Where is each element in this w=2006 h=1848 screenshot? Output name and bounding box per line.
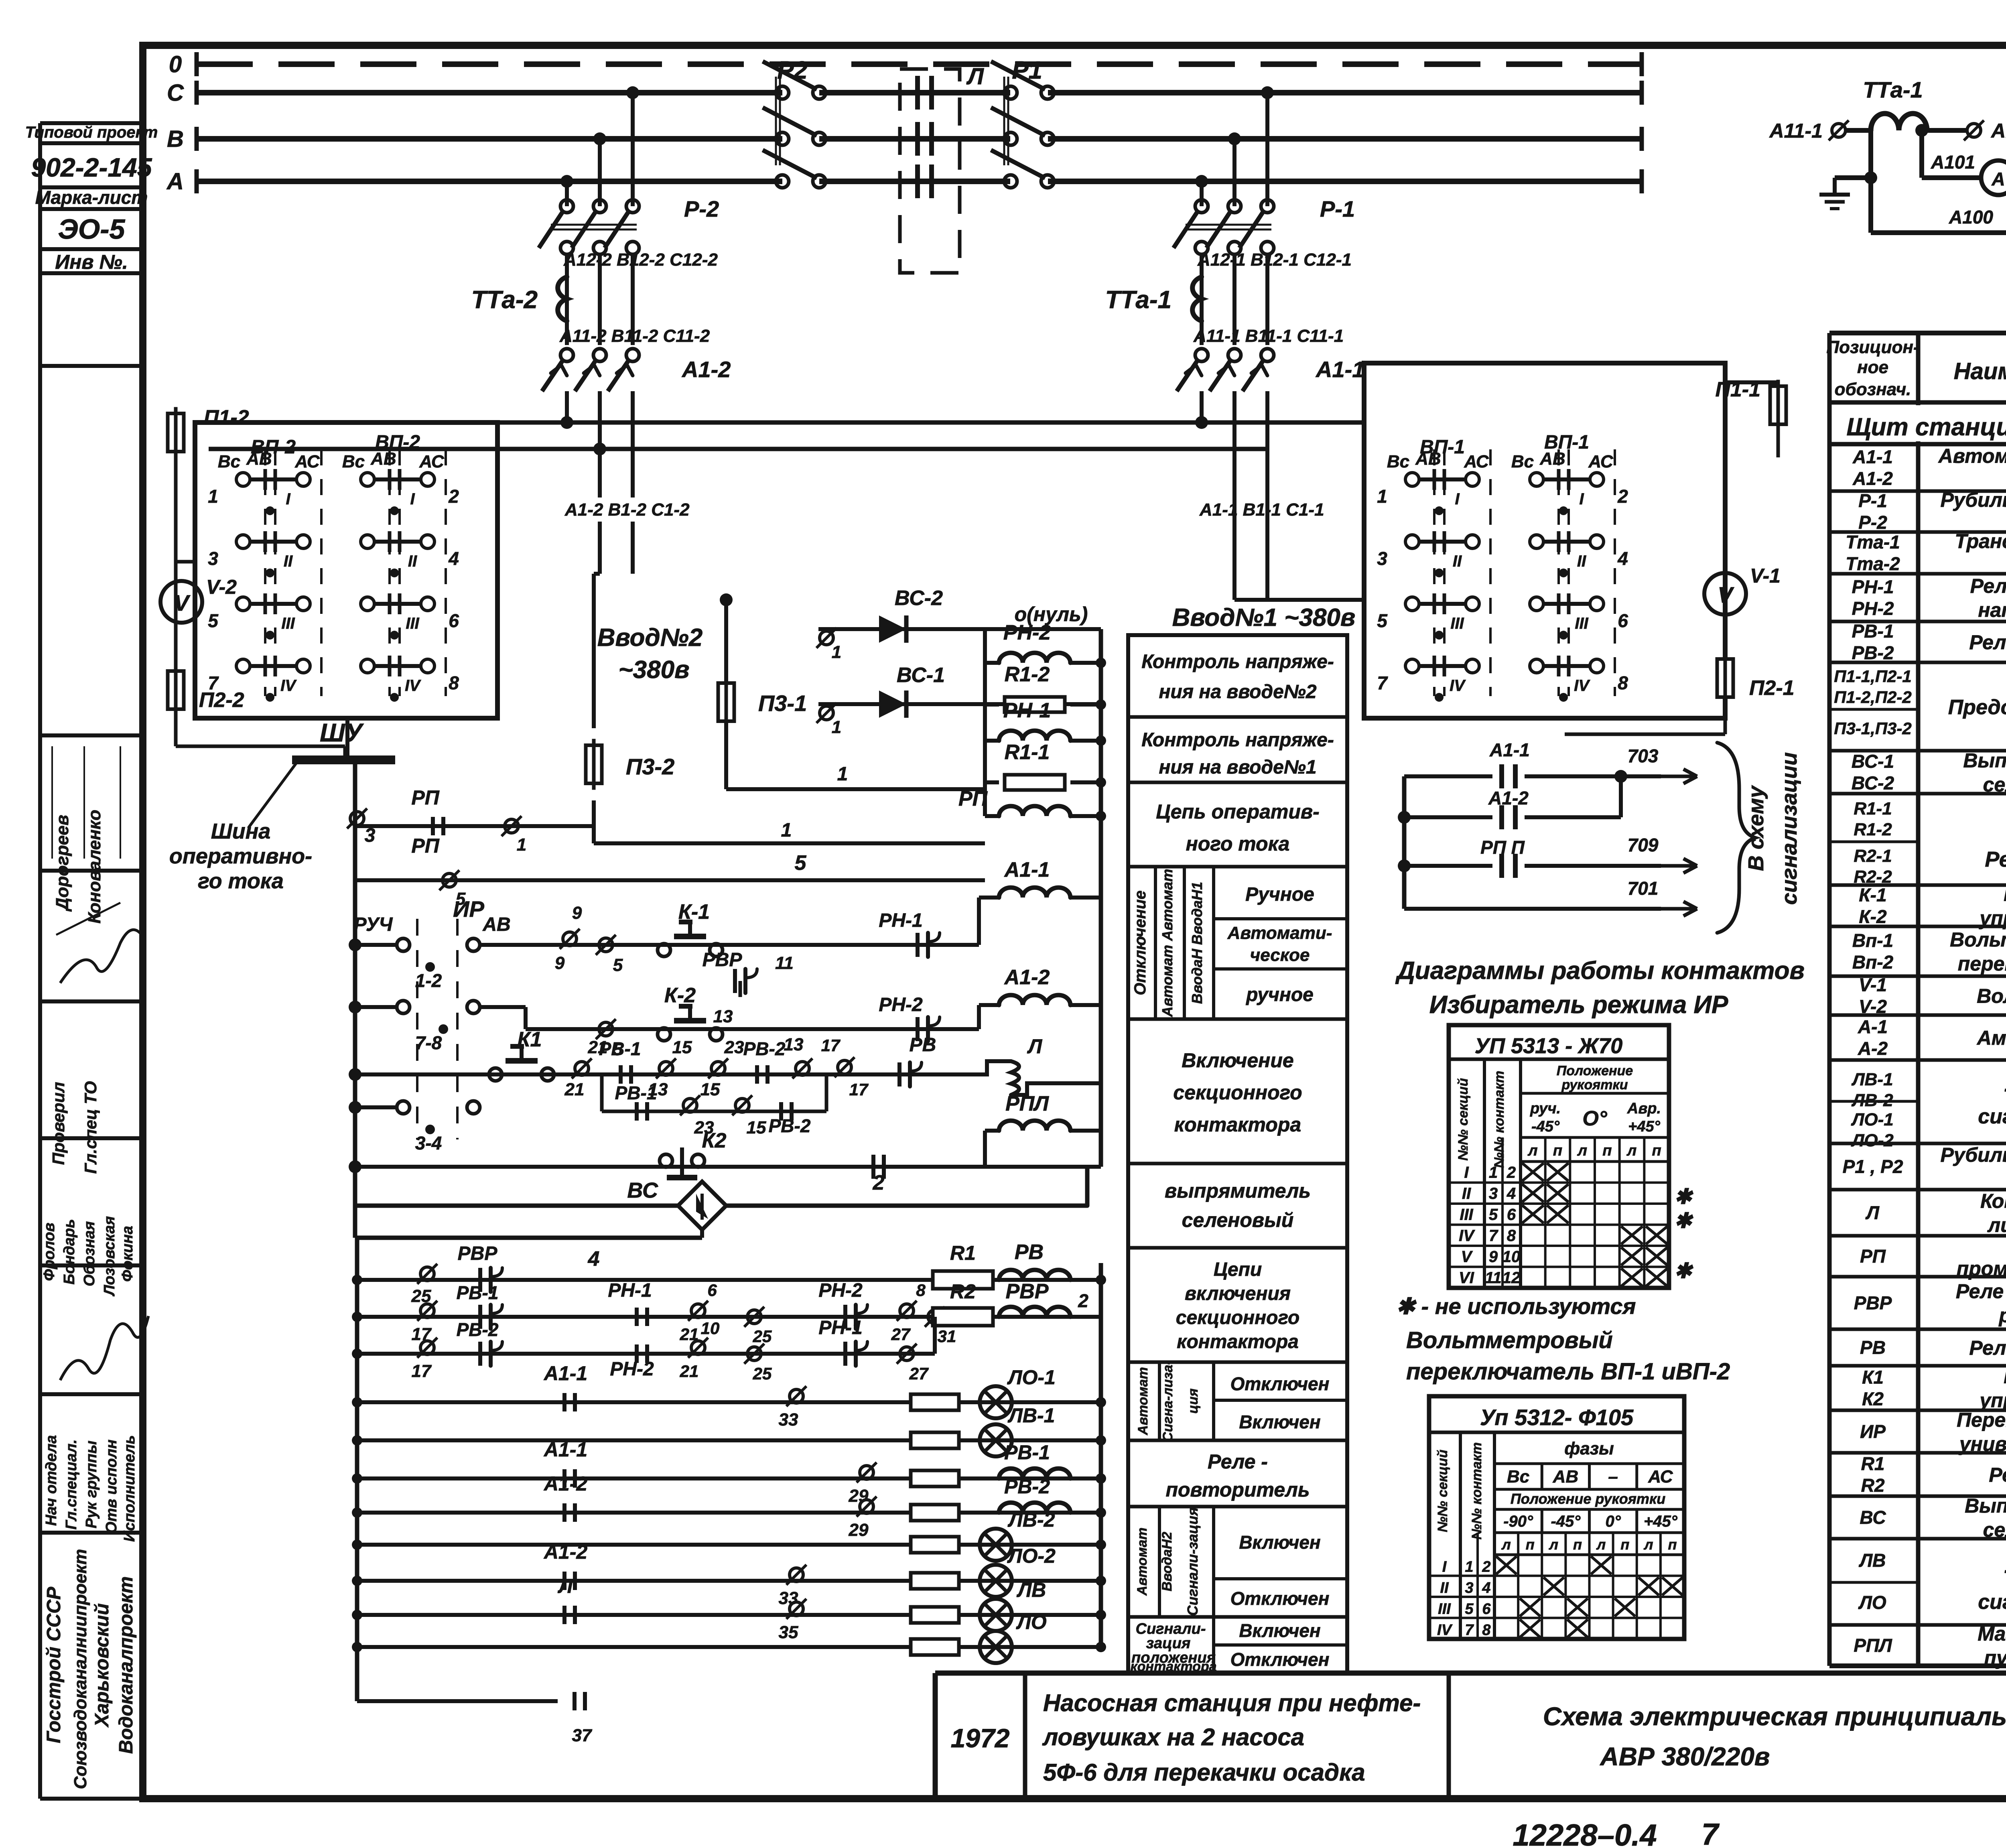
- svg-text:переключатель ВП-1 иВП-2: переключатель ВП-1 иВП-2: [1406, 1359, 1730, 1385]
- voltmeter switch ВП-2 grids: [236, 473, 250, 486]
- relay coil А1-1: [985, 896, 999, 900]
- svg-text:5: 5: [1489, 1206, 1498, 1224]
- svg-text:IV: IV: [1437, 1622, 1453, 1639]
- svg-text:А1-1: А1-1: [1315, 357, 1364, 382]
- svg-text:РВ: РВ: [1860, 1337, 1886, 1358]
- svg-text:п: п: [1573, 1536, 1582, 1553]
- svg-text:8: 8: [1507, 1227, 1516, 1245]
- svg-text:A: A: [166, 169, 184, 195]
- svg-text:Бондарь: Бондарь: [61, 1219, 78, 1284]
- contact РП (seal): [431, 817, 435, 835]
- relay coil РВ: [999, 1270, 1070, 1280]
- svg-text:РН-1: РН-1: [1852, 577, 1894, 597]
- wire: feeder 2 taps from buses: [560, 175, 573, 188]
- svg-text:6: 6: [1507, 1206, 1516, 1224]
- svg-text:Вольтметровый: Вольтметровый: [1406, 1327, 1613, 1353]
- svg-text:№№ секций: №№ секций: [1456, 1078, 1471, 1161]
- ground: [1833, 178, 1837, 195]
- contact РН-1b: [843, 1342, 847, 1366]
- svg-text:ШУ: ШУ: [320, 718, 364, 747]
- svg-text:R1-1: R1-1: [1854, 799, 1892, 818]
- relay coil РП: [985, 814, 999, 818]
- resistor R1: [933, 1271, 993, 1289]
- svg-text:А1-2 В1-2 С1-2: А1-2 В1-2 С1-2: [564, 500, 690, 520]
- push button К2: [660, 1154, 672, 1167]
- svg-text:Авр.: Авр.: [1627, 1100, 1661, 1117]
- svg-text:Сигнали-зация: Сигнали-зация: [1184, 1507, 1201, 1616]
- svg-text:Переключатель: Переключатель: [1957, 1409, 2006, 1431]
- svg-text:Резистор: Резистор: [1989, 1464, 2006, 1486]
- svg-text:23: 23: [724, 1038, 744, 1057]
- svg-text:РВ-2: РВ-2: [1004, 1475, 1050, 1498]
- signal outgoing diagram: [1402, 776, 1407, 909]
- wire: right block drops: [1234, 598, 1364, 602]
- svg-text:л: л: [1501, 1536, 1511, 1553]
- svg-text:0°: 0°: [1606, 1513, 1621, 1530]
- svg-text:РПЛ: РПЛ: [1854, 1635, 1892, 1656]
- svg-text:Включение: Включение: [1182, 1049, 1293, 1072]
- svg-text:5: 5: [1465, 1601, 1474, 1618]
- relay coil РН-2: [985, 661, 999, 665]
- svg-text:АВ: АВ: [246, 449, 272, 469]
- resistor ballast: [911, 1505, 959, 1521]
- contact РП (signal): [1404, 864, 1492, 868]
- svg-text:15: 15: [747, 1118, 766, 1137]
- svg-text:П1-1,П2-1: П1-1,П2-1: [1834, 667, 1912, 686]
- wire: lower ladder left rail: [355, 1238, 359, 1701]
- contact РН-2 lower: [843, 1305, 847, 1329]
- svg-text:Реле времени: Реле времени: [1969, 1337, 2006, 1359]
- svg-text:7-8: 7-8: [415, 1032, 442, 1053]
- svg-text:2: 2: [1507, 1164, 1516, 1182]
- disconnect switch Р-2: [560, 200, 573, 213]
- svg-text:резерва: резерва: [1998, 1304, 2006, 1327]
- svg-text:селеновый: селеновый: [1182, 1209, 1294, 1231]
- svg-text:Л: Л: [1865, 1202, 1880, 1223]
- svg-text:-45°: -45°: [1531, 1118, 1560, 1135]
- svg-text:л: л: [1643, 1536, 1653, 1553]
- svg-text:сигнальная: сигнальная: [1978, 1590, 2006, 1614]
- svg-text:Включен: Включен: [1239, 1411, 1320, 1432]
- svg-text:А1-2: А1-2: [543, 1541, 588, 1563]
- svg-text:R2: R2: [1861, 1475, 1885, 1496]
- wire: rung 25 РВР: [357, 1278, 1101, 1282]
- svg-text:ВС-2: ВС-2: [895, 587, 943, 610]
- svg-text:Положение рукоятки: Положение рукоятки: [1511, 1491, 1665, 1507]
- svg-text:обознач.: обознач.: [1835, 380, 1911, 399]
- svg-text:К1: К1: [518, 1028, 542, 1051]
- svg-text:Рук группы: Рук группы: [83, 1441, 100, 1529]
- svg-text:РП: РП: [958, 787, 988, 810]
- svg-text:ЛО: ЛО: [1858, 1592, 1886, 1613]
- svg-text:РН-1: РН-1: [818, 1317, 862, 1338]
- svg-text:П3-1,П3-2: П3-1,П3-2: [1834, 719, 1912, 738]
- svg-text:л: л: [1596, 1536, 1606, 1553]
- svg-text:А11-1 В11-1 С11-1: А11-1 В11-1 С11-1: [1193, 326, 1344, 346]
- svg-text:Реле наличия: Реле наличия: [1970, 575, 2006, 597]
- wire: rung 17 РВ-2: [357, 1352, 935, 1356]
- svg-text:Трансформатор: Трансформатор: [1955, 530, 2006, 552]
- svg-text:Кнопка: Кнопка: [2004, 883, 2006, 906]
- svg-text:АС: АС: [294, 452, 320, 471]
- svg-text:-90°: -90°: [1503, 1513, 1533, 1530]
- svg-text:А101: А101: [1931, 152, 1975, 173]
- switchboard panel П1-1: [1364, 363, 1725, 718]
- svg-text:секционного: секционного: [1176, 1307, 1299, 1328]
- svg-text:Р1 , Р2: Р1 , Р2: [1843, 1156, 1903, 1177]
- svg-text:Рубильник главной: Рубильник главной: [1940, 1144, 2006, 1166]
- svg-text:29: 29: [849, 1520, 869, 1540]
- svg-text:го тока: го тока: [198, 869, 284, 893]
- svg-text:руч.: руч.: [1530, 1100, 1561, 1117]
- push button К-2: [658, 1028, 670, 1041]
- svg-text:2: 2: [448, 486, 459, 507]
- svg-text:фазы: фазы: [1564, 1439, 1614, 1458]
- svg-text:Наименование: Наименование: [1954, 358, 2006, 384]
- svg-text:VI: VI: [1459, 1269, 1474, 1287]
- svg-text:Вс: Вс: [1507, 1467, 1529, 1487]
- svg-text:л: л: [1577, 1142, 1587, 1159]
- contact РВ-1 lower: [478, 1305, 482, 1329]
- svg-text:Госстрой СССР: Госстрой СССР: [43, 1586, 65, 1743]
- svg-text:К-2: К-2: [1859, 906, 1887, 927]
- svg-text:Схема электрическая принцип: Схема электрическая принципиальная: [1543, 1702, 2006, 1731]
- resistor ballast: [911, 1607, 959, 1623]
- contact А1-2: [562, 1572, 566, 1590]
- table УП 5313-Ж70: [1449, 1025, 1669, 1288]
- svg-text:А1-1: А1-1: [1852, 447, 1893, 467]
- lamp ЛО-1: [980, 1386, 1012, 1418]
- relay coil РН-1: [985, 739, 999, 743]
- svg-text:рукоятки: рукоятки: [1561, 1077, 1628, 1093]
- svg-text:Р-2: Р-2: [684, 196, 719, 221]
- svg-text:R2-2: R2-2: [1854, 867, 1892, 887]
- svg-text:Л: Л: [966, 63, 984, 89]
- svg-text:К2: К2: [1862, 1389, 1884, 1409]
- wire: left block outlet loops: [176, 560, 195, 564]
- svg-text:РВ-1: РВ-1: [615, 1082, 657, 1103]
- svg-text:Цепи: Цепи: [1214, 1259, 1262, 1280]
- svg-text:–: –: [1608, 1467, 1618, 1487]
- svg-text:Р-1: Р-1: [1858, 490, 1887, 511]
- svg-text:Лозовская: Лозовская: [101, 1216, 118, 1297]
- svg-text:12228–0.4: 12228–0.4: [1513, 1818, 1657, 1848]
- contact РВ-2 lower: [478, 1342, 482, 1366]
- svg-text:ЛВ-1: ЛВ-1: [1008, 1404, 1055, 1427]
- fuse П1-2: [168, 414, 184, 452]
- svg-text:Ввод№1 ~380в: Ввод№1 ~380в: [1172, 604, 1356, 632]
- svg-text:I: I: [410, 490, 415, 508]
- svg-text:II: II: [1577, 552, 1586, 570]
- contact РН-1: [916, 933, 920, 957]
- svg-text:Союзводоканалниипроект: Союзводоканалниипроект: [71, 1549, 90, 1789]
- svg-text:Фролов: Фролов: [41, 1223, 58, 1281]
- svg-text:АВ: АВ: [1415, 449, 1441, 469]
- svg-text:Вп-2: Вп-2: [1852, 952, 1894, 973]
- svg-text:А1-2: А1-2: [1004, 966, 1050, 989]
- svg-text:сигнальная: сигнальная: [1978, 1105, 2006, 1128]
- relay coil РВ-2: [999, 1503, 1070, 1513]
- node ШУ (operative current bus): [292, 755, 395, 764]
- svg-text:П3-1: П3-1: [758, 690, 807, 716]
- svg-text:8: 8: [449, 672, 459, 693]
- current transformer ТТа-2: [565, 277, 569, 345]
- svg-text:703: 703: [1628, 745, 1659, 766]
- svg-text:РВ-2: РВ-2: [1852, 642, 1894, 663]
- svg-text:А: А: [1991, 169, 2005, 189]
- diode ВС-1: [818, 702, 1101, 706]
- svg-text:Выпрямитель: Выпрямитель: [1965, 1495, 2006, 1517]
- svg-text:27: 27: [891, 1325, 911, 1344]
- svg-text:Позицион-: Позицион-: [1826, 337, 1919, 357]
- contact А1-2: [562, 1503, 566, 1522]
- table УП 5312-Ф105: [1429, 1396, 1684, 1639]
- svg-text:А12-1: А12-1: [1990, 120, 2006, 142]
- svg-text:Диаграммы работы контактов: Диаграммы работы контактов: [1395, 957, 1805, 985]
- svg-text:Автомат: Автомат: [1135, 1527, 1150, 1596]
- wire: feeder 1 taps from buses: [1195, 175, 1208, 188]
- svg-text:Дорогреев: Дорогреев: [53, 815, 72, 912]
- contact А1-1: [562, 1393, 566, 1411]
- contact РН-2: [916, 1017, 920, 1041]
- svg-text:АВ: АВ: [1553, 1467, 1579, 1487]
- svg-text:А-2: А-2: [1858, 1038, 1888, 1059]
- svg-text:Вс: Вс: [1511, 452, 1534, 471]
- resistor ballast: [911, 1573, 959, 1589]
- svg-text:29: 29: [849, 1486, 869, 1506]
- svg-text:II: II: [1453, 552, 1462, 570]
- svg-text:А1-1: А1-1: [543, 1438, 587, 1461]
- svg-text:12: 12: [1502, 1269, 1521, 1287]
- svg-text:Водоканалпроект: Водоканалпроект: [116, 1576, 137, 1754]
- node B (phase bus): [197, 136, 782, 142]
- svg-text:ное: ное: [1857, 357, 1888, 377]
- svg-text:Отключение: Отключение: [1131, 890, 1149, 995]
- svg-text:Контроль напряже-: Контроль напряже-: [1141, 729, 1334, 751]
- wire: ct secondary: [1868, 130, 1873, 178]
- svg-text:6: 6: [1482, 1601, 1491, 1618]
- circuit breaker А1-1: [1195, 349, 1208, 361]
- svg-text:Харьковский: Харьковский: [91, 1603, 113, 1728]
- svg-text:А1-2: А1-2: [543, 1472, 588, 1495]
- svg-text:Коноваленко: Коноваленко: [85, 810, 104, 924]
- svg-text:ЛО-2: ЛО-2: [1007, 1545, 1056, 1567]
- svg-text:Сигна-лиза-: Сигна-лиза-: [1160, 1360, 1176, 1442]
- wire: null rail о(нуль): [1099, 629, 1103, 1167]
- wire: rung РВ-1: [357, 1476, 1101, 1480]
- svg-text:Резистор: Резистор: [1985, 847, 2006, 871]
- svg-text:А1-1: А1-1: [1004, 858, 1050, 881]
- contact РН-2b: [635, 1344, 639, 1363]
- svg-text:Включен: Включен: [1239, 1532, 1320, 1553]
- svg-text:Автомат: Автомат: [1135, 1367, 1151, 1436]
- svg-text:А1-2: А1-2: [1852, 468, 1893, 489]
- svg-text:п: п: [1602, 1142, 1612, 1159]
- contact РВР seal: [478, 1268, 482, 1292]
- fuse П3-1: [724, 600, 728, 682]
- svg-text:РВ-1: РВ-1: [1852, 621, 1894, 642]
- svg-text:4: 4: [448, 548, 459, 569]
- svg-text:III: III: [1450, 615, 1464, 632]
- svg-text:А11-1: А11-1: [1769, 120, 1823, 142]
- wire: rung ЛО: [357, 1645, 1101, 1649]
- svg-text:R2: R2: [950, 1280, 976, 1303]
- svg-text:5: 5: [795, 851, 807, 875]
- svg-text:Магнитный: Магнитный: [1978, 1623, 2006, 1645]
- contact РВ: [838, 1060, 851, 1074]
- svg-text:+45°: +45°: [1628, 1118, 1660, 1135]
- svg-text:РВ-1: РВ-1: [457, 1282, 499, 1303]
- svg-text:АС: АС: [1588, 452, 1614, 471]
- svg-text:ЛВ: ЛВ: [1859, 1550, 1886, 1571]
- svg-text:ИР: ИР: [453, 896, 484, 922]
- title block: [935, 1671, 2006, 1676]
- svg-text:25: 25: [753, 1364, 772, 1383]
- svg-text:РП: РП: [411, 786, 439, 809]
- svg-text:Р1: Р1: [1012, 57, 1042, 84]
- svg-text:А1-1: А1-1: [1489, 739, 1530, 760]
- svg-text:0: 0: [169, 51, 182, 77]
- svg-text:сигнализации: сигнализации: [1777, 752, 1801, 905]
- svg-text:Типовой проект: Типовой проект: [25, 124, 158, 141]
- wire: rectifier feed 1: [724, 722, 728, 789]
- svg-text:✱ - не используются: ✱ - не используются: [1396, 1294, 1636, 1319]
- svg-text:33: 33: [779, 1588, 798, 1608]
- svg-text:Проверил: Проверил: [49, 1082, 68, 1165]
- svg-text:17: 17: [849, 1080, 869, 1099]
- svg-text:РВ: РВ: [1015, 1241, 1044, 1264]
- svg-text:Вольтметровый: Вольтметровый: [1950, 928, 2006, 951]
- wire: cross ties between input panels: [225, 420, 1364, 425]
- svg-text:ЭО-5: ЭО-5: [58, 213, 125, 245]
- svg-text:п: п: [1553, 1142, 1562, 1159]
- resistor ballast: [911, 1432, 959, 1448]
- svg-text:напряжения: напряжения: [1978, 599, 2006, 621]
- svg-text:III: III: [1460, 1206, 1473, 1224]
- fuse П1-1: [1770, 386, 1786, 424]
- svg-text:Вс: Вс: [1387, 452, 1409, 471]
- svg-text:1: 1: [517, 835, 526, 855]
- lamp ЛО-2: [980, 1565, 1012, 1597]
- svg-text:Шина: Шина: [211, 819, 271, 843]
- svg-text:8: 8: [1618, 672, 1628, 693]
- svg-text:универсальный: универсальный: [1958, 1433, 2006, 1455]
- svg-text:I: I: [286, 490, 290, 508]
- svg-text:Избиратель режима ИР: Избиратель режима ИР: [1429, 991, 1728, 1019]
- svg-text:IV: IV: [1450, 677, 1466, 695]
- svg-text:А12-2 В12-2 С12-2: А12-2 В12-2 С12-2: [563, 250, 718, 270]
- svg-text:R1-2: R1-2: [1854, 820, 1892, 839]
- svg-text:1: 1: [832, 717, 841, 737]
- svg-text:ВС-1: ВС-1: [897, 664, 945, 687]
- push button К1: [489, 1068, 502, 1081]
- svg-text:✱: ✱: [1674, 1259, 1693, 1283]
- contact РВ-1: [619, 1065, 623, 1084]
- wire 2 to РВ contact: [1085, 1167, 1090, 1206]
- annotation column: [1128, 635, 1347, 1673]
- svg-text:I: I: [1464, 1164, 1469, 1182]
- svg-text:1: 1: [1489, 1164, 1498, 1182]
- svg-text:Л: Л: [1027, 1035, 1043, 1058]
- svg-text:✱: ✱: [1674, 1209, 1693, 1233]
- svg-text:I: I: [1579, 490, 1584, 508]
- svg-text:линейный: линейный: [1987, 1214, 2006, 1237]
- svg-text:Отключен: Отключен: [1230, 1373, 1330, 1394]
- svg-text:К-1: К-1: [678, 900, 710, 924]
- svg-text:А1-1 В1-1 С1-1: А1-1 В1-1 С1-1: [1199, 500, 1324, 520]
- svg-text:8: 8: [1482, 1622, 1491, 1639]
- svg-text:V-2: V-2: [206, 576, 237, 598]
- svg-text:ЛВ: ЛВ: [1017, 1579, 1046, 1601]
- circuit breaker А1-2: [560, 349, 573, 361]
- svg-text:Автомат Автомат: Автомат Автомат: [1159, 869, 1176, 1017]
- svg-text:ЛО-1: ЛО-1: [1007, 1366, 1056, 1389]
- svg-text:ВС: ВС: [627, 1178, 658, 1202]
- svg-text:1: 1: [1377, 486, 1387, 507]
- svg-text:ЛВ-2: ЛВ-2: [1008, 1509, 1055, 1531]
- svg-text:Р2: Р2: [777, 57, 808, 84]
- svg-text:ВС: ВС: [1860, 1507, 1886, 1528]
- resistor ballast: [911, 1537, 959, 1553]
- svg-text:ловушках на 2 насоса: ловушках на 2 насоса: [1042, 1724, 1304, 1751]
- svg-text:1972: 1972: [951, 1723, 1010, 1753]
- wire: rung ЛВ-1: [357, 1438, 1101, 1442]
- resistor R1-1: [985, 780, 999, 784]
- svg-text:ТТа-1: ТТа-1: [1105, 286, 1172, 314]
- contact А1-1: [562, 1469, 566, 1488]
- svg-text:О°: О°: [1582, 1107, 1607, 1130]
- svg-text:ВС-1: ВС-1: [1852, 751, 1894, 772]
- svg-text:ВводаН ВводаН1: ВводаН ВводаН1: [1189, 882, 1205, 1004]
- wire: lower null rail: [1099, 1263, 1103, 1647]
- svg-text:РВ: РВ: [910, 1034, 936, 1056]
- svg-text:А1-1: А1-1: [543, 1362, 587, 1385]
- svg-text:4: 4: [588, 1247, 600, 1271]
- wire: rung РВ-2: [357, 1511, 1101, 1515]
- svg-text:п: п: [1526, 1536, 1535, 1553]
- svg-text:Предохранитель: Предохранитель: [1948, 696, 2006, 719]
- svg-text:III: III: [406, 615, 419, 632]
- svg-text:РУЧ: РУЧ: [354, 914, 393, 935]
- svg-text:РН-2: РН-2: [1852, 598, 1894, 619]
- svg-text:ТТа-1: ТТа-1: [1863, 77, 1923, 102]
- svg-text:1: 1: [1465, 1559, 1473, 1576]
- svg-text:IV: IV: [405, 677, 421, 695]
- svg-text:Нач отдела: Нач отдела: [43, 1435, 60, 1526]
- svg-text:Л: Л: [558, 1575, 573, 1597]
- svg-text:Обозная: Обозная: [81, 1221, 98, 1286]
- contact А1-1 (signal): [1404, 774, 1492, 778]
- svg-text:3: 3: [1465, 1580, 1473, 1596]
- push button К-1: [658, 944, 670, 956]
- svg-text:ЛО: ЛО: [1016, 1611, 1046, 1633]
- disconnect switch Р1: [1004, 86, 1017, 99]
- svg-text:РВР: РВР: [1006, 1280, 1049, 1303]
- svg-text:2: 2: [1617, 486, 1628, 507]
- switchboard panel П1-2: [195, 422, 497, 718]
- svg-text:Рубильник главной: Рубильник главной: [1940, 489, 2006, 511]
- svg-text:АВР 380/220в: АВР 380/220в: [1600, 1742, 1770, 1771]
- wire: rung 5: [355, 878, 985, 882]
- contact РН-1 lower: [635, 1308, 639, 1326]
- svg-text:Р-1: Р-1: [1320, 196, 1355, 221]
- svg-text:РН-1: РН-1: [608, 1280, 652, 1301]
- svg-text:В схему: В схему: [1744, 785, 1768, 871]
- svg-text:К2: К2: [702, 1129, 727, 1152]
- svg-text:8: 8: [916, 1281, 926, 1300]
- svg-text:РВ-2: РВ-2: [457, 1319, 499, 1340]
- svg-text:1: 1: [837, 764, 848, 785]
